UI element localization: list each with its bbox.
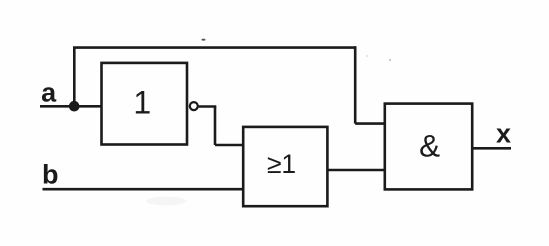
wire from bubble horizontal (198, 105, 216, 108)
wire output x (472, 147, 511, 150)
faint scan dot 2 (366, 55, 368, 57)
scan speck artifact (202, 39, 206, 41)
AND gate U3 box (385, 104, 472, 190)
wire inverter output vertical down (214, 107, 217, 146)
wire OR output to AND second pin (327, 169, 385, 172)
svg-text:≥1: ≥1 (267, 149, 296, 179)
svg-text:a: a (41, 78, 57, 108)
wire input b (43, 188, 244, 191)
svg-text:&: & (419, 127, 440, 163)
wire feedback vertical up from node A (73, 48, 76, 107)
wire into OR gate first pin (215, 144, 244, 147)
wire feedback vertical down to AND input (354, 46, 357, 123)
wire feedback into AND gate pin (355, 122, 385, 125)
svg-text:x: x (496, 119, 511, 149)
OR gate U2 box (243, 127, 327, 206)
junction node A (dot on input a) (69, 101, 80, 112)
svg-text:1: 1 (133, 84, 151, 120)
faint scan smudge (146, 197, 186, 206)
wire feedback top horizontal (73, 46, 356, 49)
inverter U1 box (102, 63, 188, 145)
svg-text:b: b (42, 160, 59, 190)
faint scan dot (389, 59, 391, 61)
inverter U1 inversion bubble (190, 102, 198, 110)
wire input a (40, 105, 102, 108)
